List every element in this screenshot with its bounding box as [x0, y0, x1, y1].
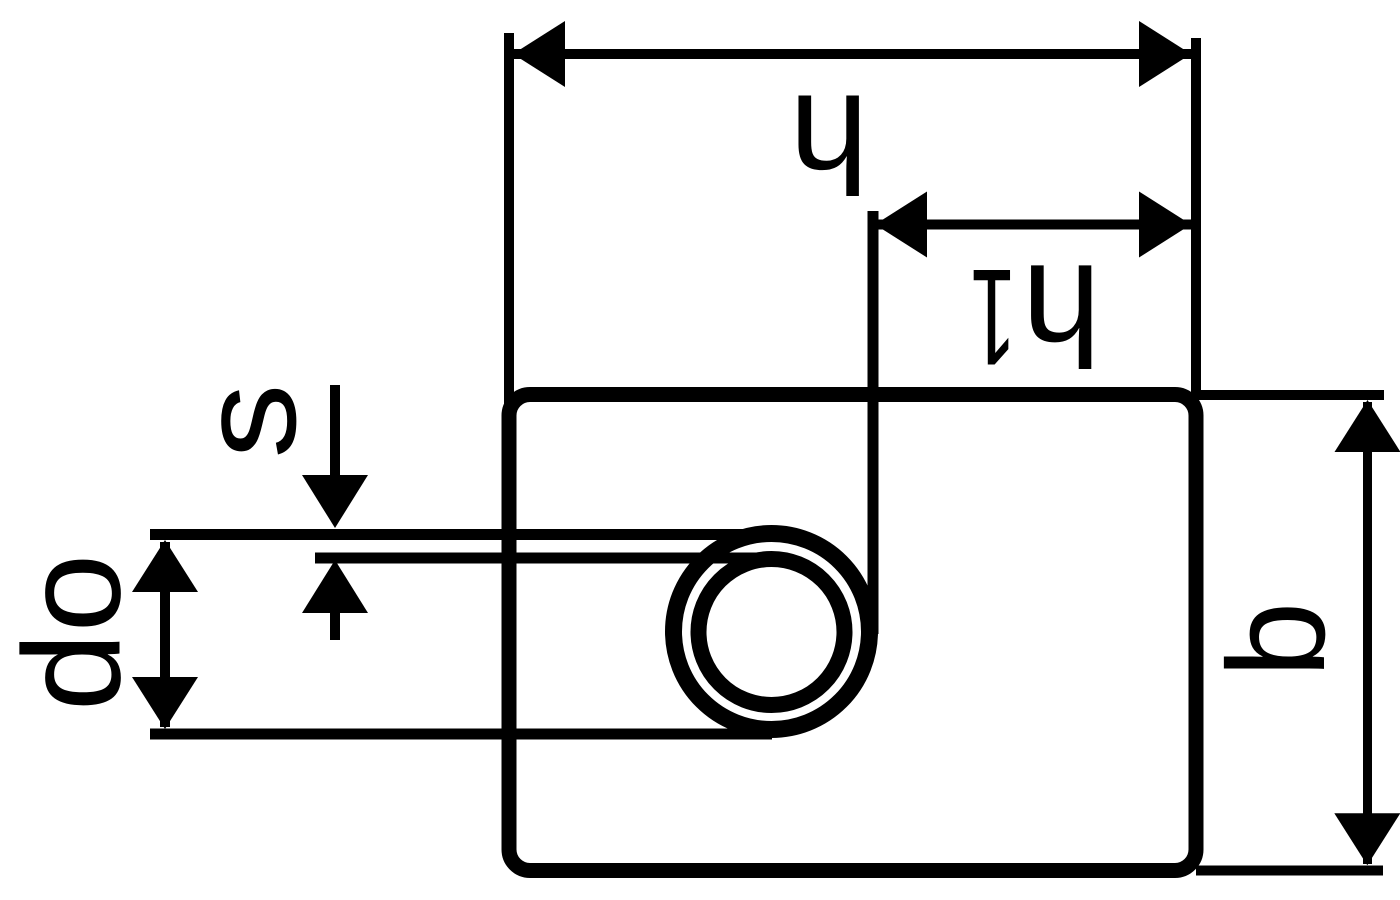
- outer circle of rolled hole: [674, 534, 870, 730]
- inner circle of rolled hole: [699, 559, 845, 705]
- dimension b: top extension line: [1196, 390, 1384, 400]
- dimension do: upper arrowhead (pointing up): [132, 540, 198, 592]
- dimension h1: left extension line (tangent to hole): [868, 211, 879, 634]
- svg-text:1: 1: [970, 240, 1017, 393]
- dimension h: right arrowhead: [1139, 21, 1191, 87]
- svg-text:h: h: [1022, 234, 1101, 393]
- dimension h: left arrowhead: [513, 21, 565, 87]
- dimension do: bottom extension line (tangent to hole bottom): [150, 729, 772, 740]
- dimension s: label s (rotated -90): [171, 383, 325, 458]
- dimension do: label do (rotated -90): [0, 554, 149, 712]
- dimension h: label h (rotated 180): [789, 66, 869, 221]
- dimension h1: left arrowhead: [875, 192, 927, 258]
- dimension h1: label h1 (rotated 180): [1022, 234, 1101, 393]
- svg-text:s: s: [171, 383, 325, 458]
- dimension h: left extension line: [504, 33, 514, 410]
- svg-text:do: do: [0, 554, 149, 712]
- dimension s: upper arrowhead (pointing down): [302, 475, 368, 528]
- dimension b: top arrowhead (pointing up): [1335, 400, 1400, 452]
- svg-text:h: h: [789, 66, 869, 221]
- dimension b: label b (rotated -90): [1200, 602, 1354, 678]
- dimension b: bottom extension line: [1196, 866, 1383, 876]
- dimension do: dimension line: [160, 542, 170, 727]
- dimension do: lower arrowhead (pointing down): [132, 677, 198, 729]
- dimension h1: right arrowhead: [1139, 192, 1191, 258]
- dimension s: lower leader tail: [330, 610, 340, 640]
- dimension s: lower arrowhead (pointing up): [302, 560, 368, 613]
- slot bottom line (lower sheet edge): [315, 553, 772, 564]
- dimension b: dimension line: [1363, 402, 1372, 864]
- part body outline (rounded rectangle): [509, 395, 1196, 871]
- svg-text:b: b: [1200, 602, 1354, 678]
- dimension h1: dimension line: [875, 220, 1191, 230]
- dimension b: bottom arrowhead (pointing down): [1334, 813, 1400, 865]
- dimension h: dimension line: [513, 49, 1191, 59]
- dimension s: upper leader line: [330, 385, 340, 478]
- slot top line (upper sheet edge): [150, 529, 772, 540]
- dimension h: right extension line: [1191, 38, 1201, 400]
